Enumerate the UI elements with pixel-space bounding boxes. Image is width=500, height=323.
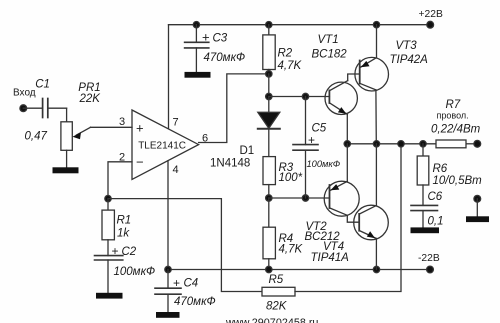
node R6 tap — [420, 141, 426, 147]
svg-text:4: 4 — [173, 164, 179, 176]
terminal output return — [474, 195, 481, 202]
svg-text:100мкФ: 100мкФ — [307, 159, 341, 169]
node D1 anode — [266, 93, 272, 99]
node R3/R4 junction — [266, 195, 272, 201]
svg-text:R5: R5 — [269, 274, 284, 286]
svg-text:+: + — [136, 121, 144, 136]
node pin4/C4 junction — [165, 266, 171, 272]
svg-text:+: + — [173, 276, 180, 290]
wire op-amp pin3 — [91, 126, 133, 128]
node R4 bottom junction — [266, 266, 272, 272]
resistor R7 — [431, 99, 481, 148]
svg-text:C3: C3 — [213, 33, 228, 45]
svg-text:0,1: 0,1 — [428, 215, 444, 227]
terminal -22V — [427, 266, 434, 273]
node C3 junction — [193, 22, 199, 28]
svg-text:C4: C4 — [184, 277, 199, 289]
node VT1/VT2 emitters — [344, 141, 350, 147]
svg-text:4,7K: 4,7K — [278, 60, 303, 72]
node VT3/VT4 collectors — [373, 141, 379, 147]
resistor R5 — [262, 144, 401, 313]
svg-text:3: 3 — [119, 116, 125, 128]
wire +22V top rail — [169, 24, 430, 26]
svg-text:провол.: провол. — [437, 110, 469, 120]
transistor VT3 TIP42A — [355, 40, 428, 144]
resistor R4 — [263, 198, 303, 270]
svg-text:D1: D1 — [240, 145, 255, 157]
capacitor C1 — [23, 78, 66, 142]
transistor VT2 BC212 — [305, 144, 360, 243]
ground under C3 — [185, 72, 211, 78]
resistor R2 — [263, 25, 303, 74]
node feedback tap — [398, 141, 404, 147]
svg-text:470мкФ: 470мкФ — [174, 296, 216, 308]
capacitor C2 — [95, 244, 156, 293]
node R1 / pin2 / feedback junction — [105, 195, 111, 201]
resistor R6 — [417, 144, 482, 206]
terminal +22V — [427, 21, 434, 28]
svg-text:82K: 82K — [266, 301, 288, 313]
capacitor C6 — [411, 191, 444, 227]
ground under C6 — [411, 227, 440, 233]
svg-text:R1: R1 — [117, 215, 132, 227]
wire D1 node to VT1 base — [269, 96, 330, 98]
potentiometer PR1 — [61, 82, 101, 168]
svg-text:0,22/4Вт: 0,22/4Вт — [431, 123, 481, 135]
svg-text:TIP42A: TIP42A — [390, 54, 429, 66]
svg-text:C1: C1 — [35, 78, 50, 90]
wire op-amp pin7 to +22V rail — [168, 25, 170, 129]
svg-text:TIP41A: TIP41A — [311, 252, 350, 264]
svg-text:100мкФ: 100мкФ — [114, 266, 156, 278]
diode D1 1N4148 — [210, 97, 280, 170]
ground bar output return — [466, 216, 489, 222]
wire VT3 emitter column — [376, 25, 378, 58]
op-amp U1 TLE2141C — [119, 110, 208, 179]
transistor VT1 BC182 — [312, 34, 360, 144]
ground under PR1 — [53, 167, 79, 173]
svg-text:7: 7 — [173, 117, 179, 129]
node C5 top branch — [302, 93, 308, 99]
svg-text:−: − — [136, 155, 144, 170]
svg-text:Вход: Вход — [13, 88, 36, 99]
wire op-amp pin2 — [108, 162, 132, 199]
resistor R3 — [263, 157, 303, 198]
svg-text:1N4148: 1N4148 — [210, 158, 250, 170]
svg-text:22K: 22K — [79, 93, 102, 105]
ground under C4 — [156, 312, 180, 318]
wire op-amp pin4 down to -22V rail — [167, 161, 169, 270]
svg-text:www.290702458.ru: www.290702458.ru — [225, 317, 318, 323]
svg-text:C6: C6 — [428, 191, 443, 203]
svg-text:470мкФ: 470мкФ — [204, 52, 246, 64]
svg-text:VT1: VT1 — [318, 34, 339, 46]
capacitor C5 — [293, 97, 341, 199]
capacitor C3 — [185, 25, 246, 72]
ground under C2 — [96, 293, 123, 299]
terminal output — [474, 140, 481, 147]
input terminal — [20, 105, 27, 112]
svg-text:R6: R6 — [433, 163, 448, 175]
wire R2 bottom to D1 anode — [268, 74, 270, 97]
wire R3 bottom to VT2 base — [269, 197, 330, 199]
svg-text:BC182: BC182 — [312, 49, 348, 61]
resistor R1 — [102, 199, 131, 256]
svg-text:6: 6 — [202, 133, 208, 145]
svg-text:+: + — [308, 133, 315, 147]
node C5 bottom branch — [302, 195, 308, 201]
-22V rail — [168, 269, 430, 271]
svg-text:+22В: +22В — [419, 9, 443, 20]
svg-text:+: + — [202, 30, 210, 45]
wire op-amp output pin6 to R2 bottom — [199, 74, 269, 143]
svg-text:-22В: -22В — [418, 253, 440, 264]
transistor VT4 TIP41A — [311, 144, 389, 270]
svg-text:+: + — [112, 244, 119, 258]
svg-text:VT3: VT3 — [396, 40, 418, 52]
node R2 top junction — [266, 22, 272, 28]
wire feedback from node to R5 — [108, 199, 262, 292]
svg-text:100*: 100* — [279, 172, 303, 184]
node VT3 emitter junction on +22V rail — [373, 22, 379, 28]
svg-text:1k: 1k — [117, 227, 130, 239]
node op-amp output / R2 bottom — [266, 71, 272, 77]
node VT4 emitter junction — [373, 266, 379, 272]
svg-text:4,7K: 4,7K — [279, 244, 304, 256]
svg-text:10/0,5Вт: 10/0,5Вт — [433, 175, 483, 187]
svg-text:0,47: 0,47 — [25, 130, 48, 142]
svg-text:TLE2141C: TLE2141C — [138, 141, 186, 152]
svg-text:R2: R2 — [278, 48, 293, 60]
svg-text:R7: R7 — [446, 99, 461, 111]
capacitor C4 — [155, 270, 216, 313]
svg-text:C2: C2 — [122, 246, 137, 258]
output rail — [347, 143, 436, 145]
